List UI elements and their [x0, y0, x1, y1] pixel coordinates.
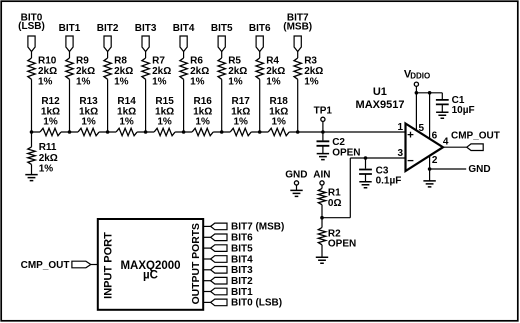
junction C3 node	[364, 156, 368, 160]
node BIT4 output connector	[211, 254, 254, 265]
svg-text:BIT1: BIT1	[59, 23, 81, 34]
svg-text:4: 4	[443, 137, 449, 148]
ground below R2	[316, 257, 328, 263]
node BIT1 input terminal	[59, 23, 81, 51]
resistor R7 2k 1%	[142, 55, 171, 87]
svg-text:µC: µC	[143, 270, 158, 282]
svg-text:1%: 1%	[119, 117, 134, 128]
node CMP_OUT output connector	[451, 131, 500, 151]
resistor R11 2k 1%	[28, 142, 58, 174]
resistor R13 1k 1%	[78, 96, 99, 136]
ground below GND terminal	[290, 190, 302, 196]
svg-text:1%: 1%	[233, 117, 248, 128]
svg-text:BIT2: BIT2	[97, 23, 119, 34]
svg-text:2kΩ: 2kΩ	[228, 66, 247, 77]
svg-text:TP1: TP1	[314, 106, 333, 117]
resistor R9 2k 1%	[66, 55, 95, 87]
svg-text:2kΩ: 2kΩ	[38, 66, 57, 77]
resistor R17 1k 1%	[230, 96, 251, 136]
wire BIT6 to R4	[259, 52, 261, 59]
svg-text:1%: 1%	[39, 164, 54, 175]
svg-text:R12: R12	[41, 96, 60, 107]
wire BIT0 to R10	[31, 52, 33, 59]
svg-text:(MSB): (MSB)	[283, 22, 312, 33]
resistor R15 1k 1%	[154, 96, 175, 136]
svg-text:5: 5	[419, 123, 425, 134]
pin 3	[398, 148, 404, 159]
svg-text:1%: 1%	[304, 77, 319, 88]
wire BIT5 to R5	[221, 52, 223, 59]
svg-text:BIT5: BIT5	[231, 243, 253, 254]
svg-text:1%: 1%	[195, 117, 210, 128]
resistor R4 2k 1%	[256, 55, 285, 87]
svg-text:R3: R3	[304, 55, 317, 66]
resistor R10 2k 1%	[28, 55, 57, 87]
junction bus node col 1	[68, 130, 72, 134]
wire output port stub BIT2	[203, 280, 210, 282]
wire bus segment lead	[32, 131, 70, 133]
svg-text:1: 1	[398, 122, 404, 133]
resistor R12 1k 1%	[40, 96, 61, 136]
svg-text:R8: R8	[114, 55, 127, 66]
wire pin 2 to ground	[430, 156, 467, 169]
wire bus segment lead	[222, 131, 260, 133]
wire output port stub BIT4	[203, 258, 210, 260]
svg-text:2kΩ: 2kΩ	[190, 66, 209, 77]
svg-text:BIT7 (MSB): BIT7 (MSB)	[231, 222, 284, 233]
node AIN terminal	[313, 170, 330, 189]
wire R7 to ladder bus	[145, 79, 147, 132]
wire pin 5 supply	[415, 93, 417, 131]
junction pin 2 node	[428, 167, 432, 171]
svg-text:2kΩ: 2kΩ	[266, 66, 285, 77]
wire bus segment lead	[184, 131, 222, 133]
resistor R5 2k 1%	[218, 55, 247, 87]
resistor R3 2k 1%	[294, 55, 323, 87]
svg-text:(LSB): (LSB)	[18, 21, 45, 32]
node CMP_OUT input connector	[21, 260, 91, 271]
wire R1 to junction	[321, 205, 323, 228]
svg-text:R7: R7	[152, 55, 165, 66]
svg-text:OPEN: OPEN	[328, 239, 356, 250]
wire pin 3 net	[322, 158, 406, 218]
svg-text:BIT0 (LSB): BIT0 (LSB)	[231, 298, 282, 309]
test point TP1	[314, 106, 333, 122]
svg-text:R9: R9	[76, 55, 89, 66]
resistor R18 1k 1%	[268, 96, 289, 136]
node BIT4 input terminal	[173, 23, 195, 51]
svg-text:INPUT PORT: INPUT PORT	[102, 232, 114, 299]
wire R11 to ground	[31, 164, 33, 174]
wire pin 6 supply	[429, 93, 431, 139]
node BIT1 output connector	[211, 287, 254, 298]
svg-text:U1: U1	[373, 86, 387, 98]
node BIT7 input terminal	[283, 12, 312, 51]
wire bus segment lead	[70, 131, 108, 133]
wire R3 to ladder bus	[297, 79, 299, 132]
pin 6	[432, 130, 438, 141]
svg-text:1%: 1%	[38, 77, 53, 88]
wire bus segment lead	[146, 131, 184, 133]
node BIT2 input terminal	[97, 23, 119, 51]
pin 1	[398, 122, 404, 133]
svg-text:GND: GND	[285, 170, 307, 181]
junction VDDIO pin5	[415, 91, 419, 95]
wire BIT4 to R6	[183, 52, 185, 59]
wire output port stub BIT3	[203, 269, 210, 271]
svg-text:R16: R16	[193, 96, 212, 107]
svg-text:1%: 1%	[190, 77, 205, 88]
svg-text:2kΩ: 2kΩ	[304, 66, 323, 77]
svg-text:1%: 1%	[266, 77, 281, 88]
node BIT7 (MSB) output connector	[211, 222, 285, 233]
svg-text:1%: 1%	[76, 77, 91, 88]
svg-text:1%: 1%	[228, 77, 243, 88]
svg-text:0.1µF: 0.1µF	[376, 175, 402, 186]
capacitor C3 0.1uF	[359, 158, 401, 188]
svg-text:DDIO: DDIO	[410, 72, 430, 81]
node GND terminal	[285, 170, 307, 191]
svg-text:2kΩ: 2kΩ	[76, 66, 95, 77]
resistor R16 1k 1%	[192, 96, 213, 136]
svg-text:BIT3: BIT3	[231, 265, 253, 276]
wire R6 to ladder bus	[183, 79, 185, 132]
wire output port stub BIT7 (MSB)	[203, 225, 210, 227]
svg-text:1%: 1%	[43, 117, 58, 128]
svg-text:BIT4: BIT4	[173, 23, 195, 34]
junction AIN node	[320, 216, 324, 220]
pin 4	[443, 137, 449, 148]
wire R2 to ground	[321, 245, 323, 257]
svg-text:R6: R6	[190, 55, 203, 66]
node GND label	[468, 164, 490, 175]
svg-text:MAX9517: MAX9517	[356, 99, 405, 111]
node BIT0 (LSB) output connector	[211, 298, 283, 309]
wire R4 to ladder bus	[259, 79, 261, 132]
svg-text:R11: R11	[39, 142, 57, 153]
wire CMP_OUT to INPUT PORT	[91, 264, 98, 266]
wire TP1 to bus	[322, 122, 324, 133]
pin 2	[432, 155, 438, 166]
svg-text:2: 2	[432, 155, 438, 166]
wire R10 to ladder bus	[31, 79, 33, 132]
ground below pin 2	[423, 181, 435, 187]
svg-text:R17: R17	[232, 96, 251, 107]
node BIT0 input terminal	[18, 12, 45, 51]
svg-text:0Ω: 0Ω	[328, 198, 342, 209]
junction VDDIO pin6	[428, 91, 432, 95]
node BIT5 output connector	[211, 243, 254, 254]
svg-text:CMP_OUT: CMP_OUT	[21, 260, 70, 271]
wire bus segment lead	[108, 131, 146, 133]
svg-text:OUTPUT PORTS: OUTPUT PORTS	[191, 223, 202, 304]
wire output port stub BIT6	[203, 236, 210, 238]
svg-text:BIT4: BIT4	[231, 254, 253, 265]
node BIT2 output connector	[211, 276, 254, 287]
wire R5 to ladder bus	[221, 79, 223, 132]
resistor R8 2k 1%	[104, 55, 133, 87]
svg-text:BIT6: BIT6	[249, 23, 271, 34]
junction bus node col 2	[106, 130, 110, 134]
svg-text:1%: 1%	[271, 117, 286, 128]
junction bus node col 4	[182, 130, 186, 134]
svg-text:1%: 1%	[152, 77, 167, 88]
wire bus to R11	[31, 132, 33, 147]
svg-text:BIT2: BIT2	[231, 276, 253, 287]
junction bus node col 6	[258, 130, 262, 134]
wire bus from R18 to comparator + input (pin 1)	[298, 131, 405, 133]
svg-text:R4: R4	[266, 55, 279, 66]
svg-text:BIT6: BIT6	[231, 233, 253, 244]
wire output port stub BIT0 (LSB)	[203, 301, 210, 303]
resistor R6 2k 1%	[180, 55, 209, 87]
ground below R11	[25, 175, 37, 181]
node BIT6 output connector	[211, 233, 254, 244]
junction bus node col 7	[296, 130, 300, 134]
wire BIT1 to R9	[69, 52, 71, 59]
wire pin 4 output	[443, 146, 467, 148]
svg-text:BIT3: BIT3	[135, 23, 157, 34]
svg-text:R13: R13	[79, 96, 98, 107]
microcontroller MAXQ2000	[98, 219, 203, 310]
svg-text:6: 6	[432, 130, 438, 141]
svg-text:GND: GND	[468, 164, 490, 175]
svg-text:2kΩ: 2kΩ	[114, 66, 133, 77]
wire R8 to ladder bus	[107, 79, 109, 132]
svg-text:R14: R14	[117, 96, 136, 107]
wire BIT3 to R7	[145, 52, 147, 59]
svg-text:1%: 1%	[81, 117, 96, 128]
node BIT3 input terminal	[135, 23, 157, 51]
svg-text:R15: R15	[155, 96, 174, 107]
wire output port stub BIT1	[203, 291, 210, 293]
svg-text:10µF: 10µF	[452, 105, 475, 116]
wire BIT7 to R3	[297, 52, 299, 59]
svg-text:AIN: AIN	[313, 170, 330, 181]
wire VDDIO rail	[416, 86, 442, 93]
junction bus node col 5	[220, 130, 224, 134]
svg-text:CMP_OUT: CMP_OUT	[451, 131, 500, 142]
svg-text:1%: 1%	[157, 117, 172, 128]
wire output port stub BIT5	[203, 247, 210, 249]
node BIT3 output connector	[211, 265, 254, 276]
svg-text:2kΩ: 2kΩ	[152, 66, 171, 77]
resistor R14 1k 1%	[116, 96, 137, 136]
resistor R2 OPEN	[318, 228, 356, 250]
wire BIT2 to R8	[107, 52, 109, 59]
svg-text:BIT1: BIT1	[231, 287, 253, 298]
capacitor C2 OPEN	[317, 132, 361, 160]
svg-text:R10: R10	[38, 55, 57, 66]
node BIT6 input terminal	[249, 23, 271, 51]
svg-text:BIT5: BIT5	[211, 23, 233, 34]
svg-text:1%: 1%	[114, 77, 129, 88]
svg-text:2kΩ: 2kΩ	[39, 153, 58, 164]
pin 5	[419, 123, 425, 134]
node BIT5 input terminal	[211, 23, 233, 51]
wire bus segment lead	[260, 131, 298, 133]
wire R9 to ladder bus	[69, 79, 71, 132]
wire pin2 gnd stub	[429, 169, 431, 181]
svg-text:R5: R5	[228, 55, 241, 66]
svg-text:OPEN: OPEN	[332, 148, 360, 159]
junction bus node col 3	[144, 130, 148, 134]
capacitor C1 10uF	[436, 93, 475, 118]
junction TP1 node	[321, 130, 325, 134]
svg-text:R18: R18	[270, 96, 289, 107]
power terminal VDDIO	[404, 68, 430, 86]
op-amp U1 MAX9517	[356, 86, 443, 171]
resistor R1 0ohm	[318, 188, 341, 209]
junction bus node col 0	[30, 130, 34, 134]
